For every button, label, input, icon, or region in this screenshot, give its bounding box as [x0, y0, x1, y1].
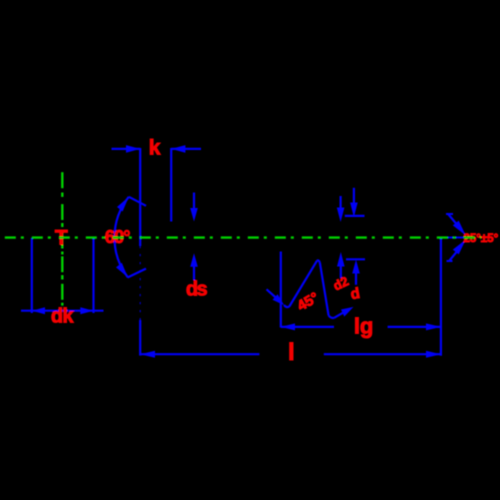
wire: d crest tick bottom — [346, 258, 365, 260]
wire: l dimension line right segment — [324, 353, 441, 355]
path: thread profile valley 2 — [329, 316, 335, 318]
wire: point angle upper stub — [446, 213, 453, 215]
wire: d2 arrow tail top — [340, 196, 342, 208]
wire: d arrow tail bottom — [355, 272, 357, 285]
wire: ds arrow tail top — [193, 193, 195, 210]
wire: horizontal axis centerline — [5, 236, 481, 238]
wire: thread profile long flank — [289, 261, 317, 307]
wire: vertical head centerline segment — [61, 172, 63, 188]
arrow: k left (points right) — [126, 145, 140, 153]
wire: dk extension line right — [92, 238, 94, 313]
wire: dk extension line left — [31, 238, 33, 313]
svg-text:lg: lg — [354, 314, 374, 339]
wire: point angle upper leader — [449, 215, 460, 228]
wire: tip axis pointer line — [441, 237, 464, 239]
wire: vertical centerline segment — [61, 256, 63, 272]
wire: cone surface line top — [129, 197, 146, 206]
arrow: 60deg arc bottom (points down-right) — [116, 263, 128, 278]
wire: lg dimension line right segment — [388, 326, 441, 328]
wire: vertical centerline segment under T — [61, 233, 63, 249]
wire: thread profile steep flank — [320, 262, 329, 315]
wire: k leader right — [171, 148, 201, 150]
arrow: lg left (points left) — [281, 323, 295, 330]
wire: dk dimension line — [21, 310, 104, 312]
arrow: d2 bottom (points up) — [337, 252, 345, 267]
arrow: thread 45 right (points up-right) — [341, 307, 354, 317]
svg-text:l: l — [288, 339, 295, 366]
wire: point angle lower leader — [450, 249, 460, 261]
wire: l/k extension line left (solid bottom) — [139, 320, 141, 356]
arrow: dk right (points right) — [80, 307, 93, 314]
arrow: d top (points down) — [350, 203, 358, 218]
svg-text:k: k — [149, 137, 161, 160]
wire: point angle lower stub — [447, 260, 453, 262]
wire: d2 arrow tail bottom — [340, 266, 342, 278]
arc: 60 degree angle arc — [114, 197, 128, 277]
svg-text:dk: dk — [51, 306, 74, 328]
wire: ds arrow tail bottom — [193, 266, 195, 280]
wire: vertical centerline dot — [61, 193, 63, 197]
wire: vertical centerline segment — [61, 204, 63, 220]
arrow: k right (points left) — [171, 145, 185, 153]
arrow: point angle lower (points up-right to tip) — [453, 240, 466, 255]
wire: l dimension line left segment — [140, 353, 259, 355]
wire: vertical centerline dot — [61, 223, 63, 227]
arrow: d bottom (points up) — [352, 260, 360, 274]
wire: d crest tick top — [345, 215, 365, 217]
wire: vertical centerline segment — [61, 284, 63, 300]
wire: thread profile right flank — [334, 310, 348, 318]
arrow: d2 top (points down) — [337, 208, 345, 223]
wire: screw tip extension line — [440, 237, 442, 356]
wire: vertical centerline dot — [61, 252, 63, 255]
arrow: dk left (points left) — [32, 307, 45, 314]
arrow: 60deg arc top (points up-right) — [117, 197, 129, 212]
arrow: l left (points left) — [140, 351, 155, 358]
wire: lg extension line — [280, 252, 282, 328]
path: thread profile peak — [317, 260, 320, 262]
path: thread profile valley 1 — [284, 305, 289, 307]
wire: l/k extension line left (thin middle) — [139, 246, 141, 320]
wire: l/k extension line left (solid top) — [139, 148, 141, 246]
wire: k leader left — [112, 148, 141, 150]
arrow: point angle upper (points down-right to tip) — [453, 221, 466, 236]
wire: lg dimension line left segment — [281, 326, 334, 328]
arrow: ds bottom (points up) — [190, 253, 198, 266]
arrow: lg right (points right) — [426, 323, 441, 330]
wire: vertical centerline dot — [61, 303, 63, 306]
arrow: thread 45 left (points down-right) — [273, 294, 285, 305]
wire: k extension line right — [170, 148, 172, 222]
wire: cone surface line bottom — [128, 269, 147, 278]
arrow: ds top (points down) — [190, 208, 198, 222]
svg-text:ds: ds — [186, 279, 208, 301]
wire: vertical centerline dot — [61, 275, 63, 279]
wire: thread profile left flank with leader — [267, 289, 279, 299]
wire: d arrow tail top — [353, 188, 355, 203]
arrow: l right (points right) — [426, 351, 441, 358]
